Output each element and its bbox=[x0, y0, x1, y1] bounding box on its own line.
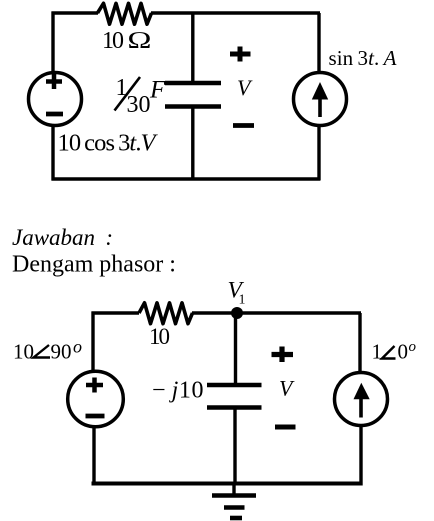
capacitor C bottom plate bbox=[165, 104, 221, 109]
label 1 angle 0deg bbox=[372, 339, 417, 364]
wire bottom horizontal (circuit 2) bbox=[92, 482, 362, 486]
svg-text:10 cos 3t.V: 10 cos 3t.V bbox=[58, 130, 159, 157]
fraction slash of 1/30 bbox=[115, 77, 141, 111]
arrow inside Is2 bbox=[359, 396, 363, 418]
minus sign inside Vs1 bbox=[46, 112, 63, 117]
wire bottom horizontal (circuit 1) bbox=[52, 177, 321, 180]
svg-text:o: o bbox=[409, 339, 417, 355]
node V1 dot bbox=[231, 307, 243, 319]
plus sign inside Vs1 bbox=[46, 74, 62, 89]
wire top horizontal (R to C node) bbox=[151, 11, 192, 14]
label V1 bbox=[228, 278, 246, 308]
wire left vertical bottom bbox=[51, 126, 54, 181]
capacitor C2 top plate bbox=[207, 383, 262, 388]
angle symbol of 10/90deg bbox=[34, 345, 51, 358]
svg-text:V: V bbox=[237, 75, 253, 100]
wire top-left horizontal (circuit 2) bbox=[92, 311, 140, 314]
wire top horizontal (C node to right) bbox=[192, 11, 320, 14]
wire left vertical bottom (circuit 2) bbox=[92, 426, 95, 486]
capacitor C2 -j10 stem top bbox=[234, 313, 237, 385]
capacitor C 1/30F stem top bbox=[191, 13, 194, 83]
minus sign inside Vs2 bbox=[86, 414, 105, 419]
resistor R2 10 (circuit 2) bbox=[139, 303, 193, 324]
svg-text:V: V bbox=[279, 376, 295, 401]
label 10 angle 90deg bbox=[13, 337, 82, 364]
svg-text:1: 1 bbox=[372, 340, 383, 364]
wire right vertical bottom bbox=[317, 126, 320, 181]
svg-text:10: 10 bbox=[149, 324, 170, 349]
svg-text:0: 0 bbox=[398, 340, 409, 364]
ground bar 3 bbox=[230, 516, 242, 521]
svg-text:1: 1 bbox=[239, 293, 246, 308]
label -j10 bbox=[152, 378, 204, 404]
wire right vertical top (circuit 2) bbox=[358, 313, 361, 373]
svg-text:− j10: − j10 bbox=[152, 378, 204, 404]
capacitor C top plate bbox=[165, 81, 221, 86]
label 1/30 F bbox=[116, 75, 167, 118]
svg-text:30: 30 bbox=[127, 92, 151, 118]
svg-text:Dengam phasor :: Dengam phasor : bbox=[12, 252, 176, 278]
angle symbol of 1/0deg bbox=[382, 346, 396, 359]
wire left vertical top bbox=[51, 12, 54, 74]
voltage source Vs2 10/90deg (circle) bbox=[68, 371, 124, 427]
ground bar 2 bbox=[224, 505, 245, 510]
current source Is1 sin3t (circle) bbox=[294, 73, 347, 126]
current source Is2 1/0deg (circle) bbox=[335, 373, 388, 426]
svg-text:90: 90 bbox=[51, 340, 72, 364]
label minus (cap voltage) bbox=[233, 123, 254, 128]
label minus (cap2 voltage) bbox=[275, 425, 296, 430]
wire left vertical top (circuit 2) bbox=[91, 312, 94, 374]
wire top-left horizontal (circuit 1 top wire, left of R) bbox=[52, 11, 99, 14]
capacitor C stem bottom bbox=[191, 107, 194, 180]
svg-text:Ω: Ω bbox=[127, 28, 152, 54]
ground bar 1 bbox=[212, 493, 256, 498]
wire top horizontal (R2 to node V1) bbox=[192, 311, 237, 314]
wire right vertical bottom (circuit 2) bbox=[359, 426, 362, 486]
svg-text:o: o bbox=[73, 337, 82, 357]
capacitor C2 bottom plate bbox=[207, 405, 262, 410]
label plus (cap2 voltage) bbox=[272, 347, 294, 363]
wire top horizontal (node V1 to right) bbox=[237, 311, 361, 314]
ground stem bbox=[232, 484, 235, 498]
resistor R 10ohm (circuit 1) bbox=[98, 3, 152, 24]
arrow inside Is1 bbox=[318, 96, 322, 117]
svg-text:10: 10 bbox=[13, 340, 34, 364]
svg-text:Jawaban :: Jawaban : bbox=[12, 225, 113, 250]
voltage source Vs1 10cos3t (circle) bbox=[29, 73, 82, 126]
svg-text:10: 10 bbox=[102, 28, 124, 54]
svg-text:sin 3t. A: sin 3t. A bbox=[329, 46, 397, 70]
svg-text:F: F bbox=[149, 77, 166, 104]
label plus (cap voltage) bbox=[230, 47, 251, 62]
capacitor C2 stem bottom bbox=[233, 408, 236, 485]
wire right vertical top bbox=[317, 13, 320, 73]
plus sign inside Vs2 bbox=[86, 378, 103, 393]
